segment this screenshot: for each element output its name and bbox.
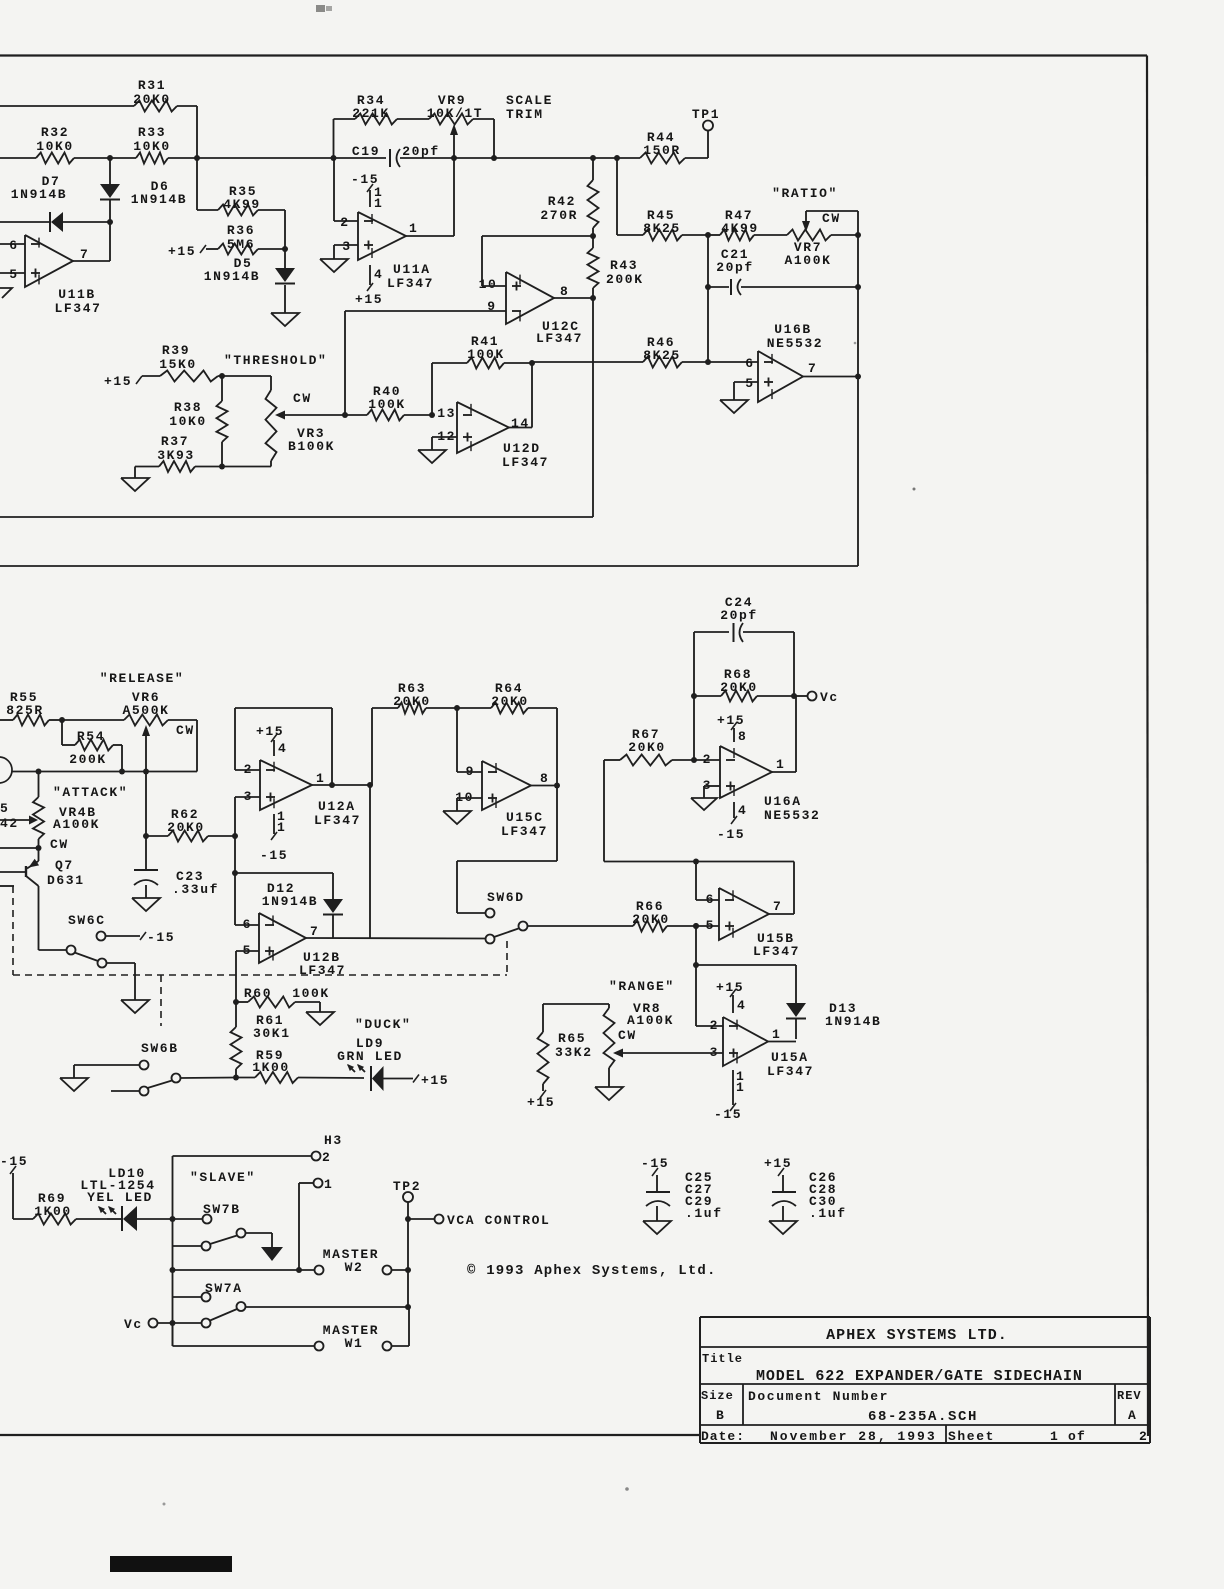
svg-text:R38: R38 xyxy=(174,400,202,415)
svg-text:1N914B: 1N914B xyxy=(204,269,260,284)
svg-text:-15: -15 xyxy=(641,1156,669,1171)
svg-text:-15: -15 xyxy=(0,1154,28,1169)
U16B pin 5 wire and ground xyxy=(734,381,758,383)
U12B pin 5 wire xyxy=(236,950,259,952)
svg-text:6: 6 xyxy=(9,238,18,253)
wire U16B output feedback vertical xyxy=(857,211,859,566)
U15C pin 10 wire and ground xyxy=(457,797,482,799)
U12B pin 6 wire xyxy=(234,873,236,925)
svg-text:20pf: 20pf xyxy=(402,144,440,159)
svg-text:68-235A.SCH: 68-235A.SCH xyxy=(868,1409,978,1425)
resistor R40 xyxy=(345,414,367,416)
scan mark top xyxy=(316,5,325,12)
svg-text:SW6B: SW6B xyxy=(141,1041,179,1056)
svg-text:10K/1T: 10K/1T xyxy=(427,106,483,121)
svg-text:7: 7 xyxy=(80,247,89,262)
diode D7 xyxy=(0,221,50,223)
U16A pin 8 supply xyxy=(733,728,735,742)
partial ground left edge xyxy=(0,288,12,298)
svg-text:+15: +15 xyxy=(527,1095,555,1110)
svg-text:Document Number: Document Number xyxy=(748,1389,889,1404)
svg-text:VCA CONTROL: VCA CONTROL xyxy=(447,1213,550,1228)
wire U15C output down to SW6D xyxy=(556,786,558,862)
svg-text:5: 5 xyxy=(745,376,754,391)
svg-text:B: B xyxy=(716,1408,725,1423)
svg-text:R43: R43 xyxy=(610,258,638,273)
svg-text:LF347: LF347 xyxy=(387,276,434,291)
scan artifact black bar xyxy=(110,1556,232,1572)
svg-text:4: 4 xyxy=(278,741,287,756)
svg-text:A100K: A100K xyxy=(627,1013,674,1028)
svg-text:1 of: 1 of xyxy=(1050,1429,1086,1444)
resistor R63 xyxy=(372,707,398,709)
wire U15B pin5 node xyxy=(693,923,699,929)
svg-text:6: 6 xyxy=(745,356,754,371)
svg-text:-15: -15 xyxy=(714,1107,742,1122)
svg-text:R32: R32 xyxy=(41,125,69,140)
U16A output xyxy=(772,771,796,773)
LD10 emission arrows xyxy=(99,1207,106,1214)
svg-text:CW: CW xyxy=(293,391,312,406)
svg-text:200K: 200K xyxy=(606,272,644,287)
wire node down to U15A pin 2 xyxy=(695,965,697,1026)
svg-text:1: 1 xyxy=(776,757,785,772)
svg-text:YEL LED: YEL LED xyxy=(87,1190,153,1205)
test point TP1 xyxy=(703,121,713,131)
svg-text:A100K: A100K xyxy=(53,817,100,832)
svg-text:200K: 200K xyxy=(69,752,107,767)
svg-text:8: 8 xyxy=(738,729,747,744)
svg-text:1: 1 xyxy=(736,1080,745,1095)
resistor R42 xyxy=(592,158,594,180)
svg-text:Q7: Q7 xyxy=(55,858,74,873)
dashed linkage lines xyxy=(12,886,14,975)
svg-text:LF347: LF347 xyxy=(299,963,346,978)
svg-text:-15: -15 xyxy=(260,848,288,863)
svg-text:November 28, 1993: November 28, 1993 xyxy=(770,1429,937,1444)
svg-text:20K0: 20K0 xyxy=(167,820,205,835)
resistor R32 xyxy=(0,157,36,159)
svg-text:1: 1 xyxy=(409,221,418,236)
op-amp U16B xyxy=(758,351,803,402)
resistor R65 xyxy=(542,1004,544,1032)
svg-text:10K0: 10K0 xyxy=(169,414,207,429)
svg-text:SW7A: SW7A xyxy=(205,1281,243,1296)
resistor R68 xyxy=(694,695,721,697)
svg-text:A100K: A100K xyxy=(784,253,831,268)
diode D13 feedback xyxy=(696,964,796,966)
svg-text:SW6C: SW6C xyxy=(68,913,106,928)
svg-text:1: 1 xyxy=(277,820,286,835)
svg-text:R42: R42 xyxy=(548,194,576,209)
svg-text:CW: CW xyxy=(618,1028,637,1043)
svg-text:"SLAVE": "SLAVE" xyxy=(190,1170,256,1185)
svg-text:20K0: 20K0 xyxy=(632,912,670,927)
svg-text:4K99: 4K99 xyxy=(721,221,759,236)
svg-text:LF347: LF347 xyxy=(314,813,361,828)
wire U12A output down to U12B output row xyxy=(369,785,371,939)
svg-text:+15: +15 xyxy=(355,292,383,307)
wire U12A pin3 node down to D12 row xyxy=(234,836,236,873)
U12C pin 9 wire xyxy=(345,310,506,312)
U12B output row to SW6D xyxy=(306,937,485,940)
stub wire left edge xyxy=(0,885,14,887)
svg-text:+15: +15 xyxy=(421,1073,449,1088)
transistor Q7 xyxy=(0,847,39,849)
svg-text:CW: CW xyxy=(176,723,195,738)
svg-text:CW: CW xyxy=(822,211,841,226)
diode D5 xyxy=(284,249,286,268)
svg-text:1: 1 xyxy=(316,771,325,786)
resistor R45 xyxy=(616,158,618,235)
svg-text:100K: 100K xyxy=(467,347,505,362)
svg-text:5: 5 xyxy=(0,801,9,816)
svg-text:1: 1 xyxy=(374,196,383,211)
resistor R54 xyxy=(61,720,63,745)
svg-text:+15: +15 xyxy=(256,724,284,739)
U11A output wire xyxy=(406,235,454,237)
U11A pin 11 supply xyxy=(369,190,371,207)
svg-text:150R: 150R xyxy=(643,143,681,158)
svg-text:R33: R33 xyxy=(138,125,166,140)
svg-text:13: 13 xyxy=(437,406,456,421)
svg-text:+15: +15 xyxy=(104,374,132,389)
potentiometer VR9 SCALE TRIM xyxy=(429,114,473,125)
svg-text:1K00: 1K00 xyxy=(34,1204,72,1219)
potentiometer VR7 RATIO xyxy=(787,230,831,241)
resistor R43 xyxy=(592,236,594,248)
svg-text:20pf: 20pf xyxy=(716,260,754,275)
svg-text:"ATTACK": "ATTACK" xyxy=(53,785,128,800)
svg-text:10K0: 10K0 xyxy=(133,139,171,154)
wire R67 to U15B node xyxy=(604,861,696,863)
svg-text:.1uf: .1uf xyxy=(685,1206,723,1221)
U15C pin 9 wire xyxy=(457,771,482,773)
svg-text:2: 2 xyxy=(322,1150,331,1165)
svg-text:R60: R60 xyxy=(244,986,272,1001)
U16A pin 2 wire xyxy=(694,759,720,761)
U11A pin 4 supply xyxy=(369,265,371,285)
svg-text:LF347: LF347 xyxy=(54,301,101,316)
svg-text:MODEL 622 EXPANDER/GATE SIDECH: MODEL 622 EXPANDER/GATE SIDECHAIN xyxy=(756,1368,1083,1385)
svg-text:8K25: 8K25 xyxy=(643,221,681,236)
op-amp U16A xyxy=(720,746,772,798)
svg-text:8: 8 xyxy=(540,771,549,786)
svg-text:"RELEASE": "RELEASE" xyxy=(100,671,185,686)
svg-text:5: 5 xyxy=(706,918,715,933)
svg-text:20K0: 20K0 xyxy=(720,680,758,695)
svg-text:20pf: 20pf xyxy=(720,608,758,623)
svg-text:30K1: 30K1 xyxy=(253,1026,291,1041)
svg-text:100K: 100K xyxy=(292,986,330,1001)
svg-text:LF347: LF347 xyxy=(536,331,583,346)
capacitor C24 xyxy=(693,632,695,696)
terminal OVc xyxy=(794,695,808,697)
wire C19 to R44 node xyxy=(454,157,617,159)
svg-text:U15A: U15A xyxy=(771,1050,809,1065)
svg-text:3K93: 3K93 xyxy=(157,448,195,463)
terminal VCA CONTROL xyxy=(408,1218,434,1220)
svg-text:SCALE: SCALE xyxy=(506,93,553,108)
U12A pin 4 supply xyxy=(273,740,275,756)
wire U12C output down-left to page edge xyxy=(592,298,594,517)
op-amp U15C xyxy=(482,761,531,810)
svg-text:"THRESHOLD": "THRESHOLD" xyxy=(224,353,327,368)
U16B output xyxy=(803,376,858,378)
resistor R60 xyxy=(236,1001,248,1003)
page border bottom xyxy=(0,1434,701,1436)
svg-text:R65: R65 xyxy=(558,1031,586,1046)
svg-text:+15: +15 xyxy=(168,244,196,259)
svg-text:U11B: U11B xyxy=(58,287,96,302)
resistor R31 xyxy=(0,105,134,107)
svg-text:-15: -15 xyxy=(351,172,379,187)
-15 arrow SW7B xyxy=(261,1247,283,1261)
svg-text:1: 1 xyxy=(324,1177,333,1192)
svg-text:GRN LED: GRN LED xyxy=(337,1049,403,1064)
U12A pin 11 supply xyxy=(273,814,275,834)
U12A feedback loop xyxy=(235,769,260,771)
resistor R67 xyxy=(604,759,620,761)
LD9 emission arrows xyxy=(102,0,104,1)
ground below R37 xyxy=(134,467,136,479)
capacitor C21 xyxy=(707,235,709,287)
title block row lines xyxy=(700,1346,1150,1348)
svg-text:U15C: U15C xyxy=(506,810,544,825)
page border right xyxy=(1147,56,1148,1437)
svg-text:42: 42 xyxy=(0,816,19,831)
svg-text:B100K: B100K xyxy=(288,439,335,454)
wire MASTER W1 row xyxy=(172,1323,174,1346)
svg-text:U16B: U16B xyxy=(774,322,812,337)
diode D12 feedback xyxy=(235,872,333,874)
svg-text:CW: CW xyxy=(50,837,69,852)
svg-text:LF347: LF347 xyxy=(502,455,549,470)
svg-text:TRIM: TRIM xyxy=(506,107,544,122)
svg-text:U16A: U16A xyxy=(764,794,802,809)
svg-text:15K0: 15K0 xyxy=(159,357,197,372)
U12C pin 10 wire xyxy=(482,285,506,287)
svg-text:4K99: 4K99 xyxy=(223,197,261,212)
wire row to C19 xyxy=(197,157,386,159)
svg-text:3: 3 xyxy=(342,239,351,254)
op-amp U12C xyxy=(506,272,554,324)
op-amp U12D xyxy=(457,402,509,453)
resistor R47 xyxy=(708,234,720,236)
potentiometer VR3 THRESHOLD xyxy=(270,376,272,390)
U11A pin 3 wire and ground xyxy=(334,244,358,246)
svg-text:4: 4 xyxy=(374,267,383,282)
svg-text:8K25: 8K25 xyxy=(643,348,681,363)
svg-text:A500K: A500K xyxy=(122,703,169,718)
svg-text:33K2: 33K2 xyxy=(555,1045,593,1060)
svg-text:Date:: Date: xyxy=(701,1429,745,1444)
U12C output xyxy=(554,297,593,299)
potentiometer VR4B ATTACK xyxy=(38,772,40,798)
diode D6 xyxy=(100,184,120,198)
svg-text:20K0: 20K0 xyxy=(491,694,529,709)
svg-text:2: 2 xyxy=(1139,1429,1148,1444)
svg-text:1K00: 1K00 xyxy=(252,1060,290,1075)
svg-text:R54: R54 xyxy=(77,729,105,744)
svg-text:REV: REV xyxy=(1117,1389,1142,1403)
svg-text:H3: H3 xyxy=(324,1133,343,1148)
svg-text:R39: R39 xyxy=(162,343,190,358)
svg-text:221K: 221K xyxy=(352,106,390,121)
U15A output xyxy=(768,1041,796,1043)
capacitor C23 xyxy=(145,772,147,870)
resistor R41 xyxy=(431,363,433,415)
U15B pin 6 wire xyxy=(695,862,697,901)
op-amp U11A xyxy=(358,212,406,260)
U15A pin 11 supply xyxy=(732,1070,734,1105)
title block frame xyxy=(700,1316,1150,1318)
page border top xyxy=(0,54,1147,56)
wire output row to page edge xyxy=(0,565,858,567)
svg-text:+15: +15 xyxy=(716,980,744,995)
resistor R55 xyxy=(0,719,13,721)
resistor R37 xyxy=(135,466,159,468)
svg-text:"RATIO": "RATIO" xyxy=(772,186,838,201)
svg-text:4: 4 xyxy=(737,998,746,1013)
svg-text:4: 4 xyxy=(738,803,747,818)
svg-text:2: 2 xyxy=(340,215,349,230)
svg-text:Vc: Vc xyxy=(820,690,839,705)
node junctions on main row xyxy=(107,155,113,161)
svg-text:1N914B: 1N914B xyxy=(262,894,318,909)
svg-text:W2: W2 xyxy=(345,1260,364,1275)
svg-text:LF347: LF347 xyxy=(767,1064,814,1079)
svg-text:14: 14 xyxy=(511,416,530,431)
svg-text:1N914B: 1N914B xyxy=(825,1014,881,1029)
resistor R34 xyxy=(334,118,356,120)
svg-text:NE5532: NE5532 xyxy=(764,808,820,823)
svg-text:-15: -15 xyxy=(147,930,175,945)
op-amp U15A xyxy=(723,1017,768,1066)
svg-text:R31: R31 xyxy=(138,78,166,93)
resistor R64 xyxy=(457,707,491,709)
VR4B wiper xyxy=(0,819,29,821)
svg-text:© 1993 Aphex Systems, Ltd.: © 1993 Aphex Systems, Ltd. xyxy=(467,1263,717,1279)
resistor R59 xyxy=(236,1077,255,1079)
capacitor C19 xyxy=(389,149,391,167)
svg-text:20K0: 20K0 xyxy=(133,92,171,107)
U11A pin 2 wire xyxy=(333,158,335,221)
svg-text:U12A: U12A xyxy=(318,799,356,814)
U16A pin 3 wire and ground xyxy=(704,785,720,787)
svg-text:U12D: U12D xyxy=(503,441,541,456)
svg-text:270R: 270R xyxy=(540,208,578,223)
wire row release/attack xyxy=(12,771,197,773)
resistor R33 xyxy=(110,157,136,159)
svg-text:1: 1 xyxy=(772,1027,781,1042)
svg-text:"RANGE": "RANGE" xyxy=(609,979,675,994)
svg-text:.1uf: .1uf xyxy=(809,1206,847,1221)
resistor R46 xyxy=(532,361,643,363)
jack connector left edge xyxy=(0,757,12,783)
op-amp U15B xyxy=(719,888,769,940)
U12D output xyxy=(509,427,532,429)
svg-text:W1: W1 xyxy=(345,1336,364,1351)
resistor R35 xyxy=(196,158,198,210)
resistor R38 xyxy=(221,376,223,401)
resistor R44 xyxy=(617,157,640,159)
svg-text:LF347: LF347 xyxy=(501,824,548,839)
svg-text:825R: 825R xyxy=(6,703,44,718)
svg-text:.33uf: .33uf xyxy=(172,882,219,897)
svg-text:1N914B: 1N914B xyxy=(11,187,67,202)
svg-text:100K: 100K xyxy=(368,397,406,412)
terminal O1 xyxy=(314,1179,323,1188)
svg-text:2: 2 xyxy=(710,1018,719,1033)
svg-text:-15: -15 xyxy=(717,827,745,842)
potentiometer VR6 RELEASE xyxy=(124,715,168,726)
vertical bus left xyxy=(172,1219,174,1346)
ground below D5 xyxy=(271,313,299,326)
svg-text:Size: Size xyxy=(701,1389,734,1403)
op-amp U12A xyxy=(260,760,312,810)
U12D pin 12 wire and ground xyxy=(432,436,457,438)
op-amp U11B xyxy=(25,235,73,287)
scan speckles xyxy=(913,488,916,491)
U12A output xyxy=(312,784,370,786)
svg-text:A: A xyxy=(1128,1408,1137,1423)
title block dividers xyxy=(742,1384,744,1425)
svg-text:Sheet: Sheet xyxy=(948,1429,995,1444)
resistor R69 xyxy=(13,1218,33,1220)
svg-text:+15: +15 xyxy=(717,713,745,728)
svg-text:7: 7 xyxy=(310,924,319,939)
svg-text:NE5532: NE5532 xyxy=(767,336,823,351)
svg-text:5: 5 xyxy=(9,267,18,282)
svg-text:1N914B: 1N914B xyxy=(131,192,187,207)
svg-text:APHEX SYSTEMS LTD.: APHEX SYSTEMS LTD. xyxy=(826,1327,1008,1344)
svg-text:20K0: 20K0 xyxy=(628,740,666,755)
U16A pin 4 supply xyxy=(733,802,735,818)
svg-text:Vc: Vc xyxy=(124,1317,143,1332)
svg-text:Title: Title xyxy=(702,1352,743,1366)
svg-text:SW6D: SW6D xyxy=(487,890,525,905)
svg-text:"DUCK": "DUCK" xyxy=(355,1017,411,1032)
op-amp U12B xyxy=(259,913,306,963)
svg-text:20K0: 20K0 xyxy=(393,694,431,709)
svg-text:R37: R37 xyxy=(161,434,189,449)
wire C21 node down to R46 row xyxy=(707,287,709,362)
resistor R66 xyxy=(633,921,667,932)
U15A pin 4 supply xyxy=(732,995,734,1013)
svg-text:+15: +15 xyxy=(764,1156,792,1171)
wire MASTER W2 row xyxy=(173,1269,315,1271)
U15B output feedback xyxy=(769,913,794,915)
svg-text:10K0: 10K0 xyxy=(36,139,74,154)
svg-text:7: 7 xyxy=(808,361,817,376)
svg-text:TP1: TP1 xyxy=(692,107,720,122)
svg-text:8: 8 xyxy=(560,284,569,299)
U12A pin 3 wire xyxy=(235,796,260,798)
svg-text:C19: C19 xyxy=(352,144,380,159)
svg-text:U11A: U11A xyxy=(393,262,431,277)
resistor R62 xyxy=(146,835,168,837)
svg-text:5M6: 5M6 xyxy=(227,237,255,252)
svg-text:R36: R36 xyxy=(227,223,255,238)
svg-text:D631: D631 xyxy=(47,873,85,888)
U15C output xyxy=(531,785,557,787)
svg-text:LF347: LF347 xyxy=(753,944,800,959)
resistor R61 xyxy=(235,1002,237,1027)
svg-text:7: 7 xyxy=(773,899,782,914)
